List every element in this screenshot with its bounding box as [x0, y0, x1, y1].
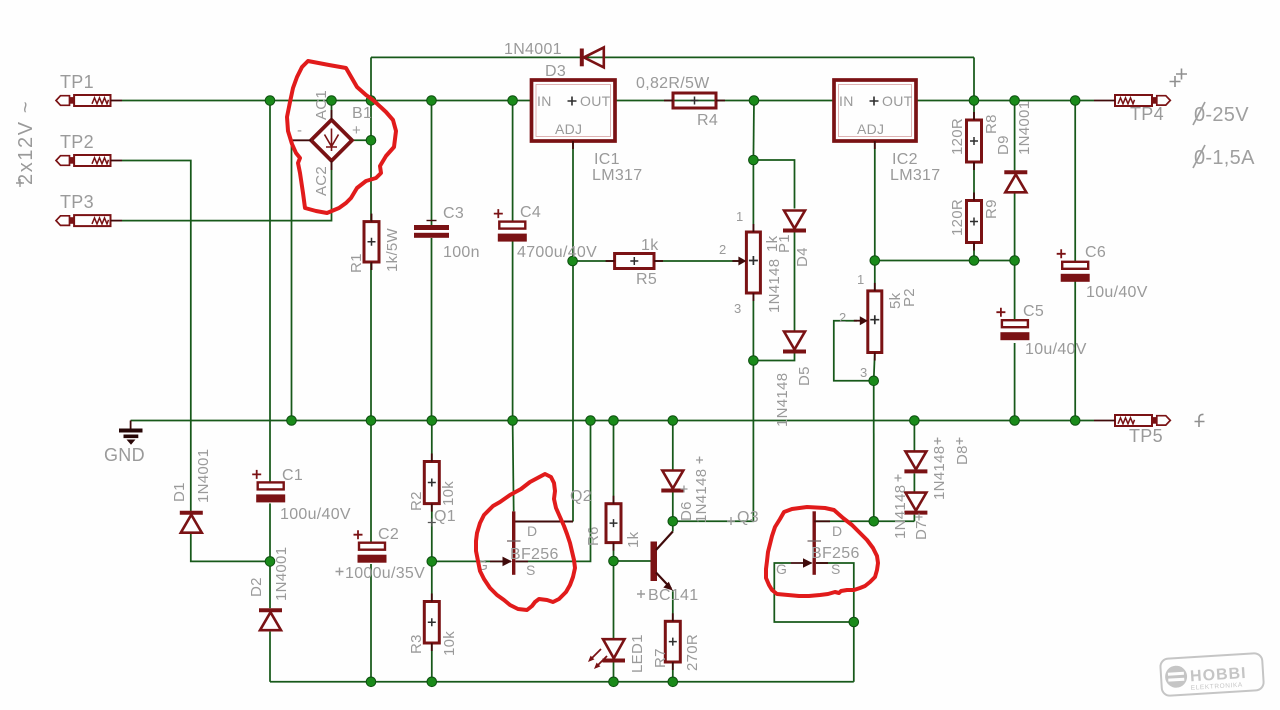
resistor R7 — [665, 613, 680, 670]
svg-text:1N4001: 1N4001 — [504, 41, 562, 58]
svg-text:BF256: BF256 — [811, 545, 860, 562]
junction dots on bottom rail — [366, 677, 677, 687]
svg-text:10u/40V: 10u/40V — [1025, 341, 1087, 358]
wire: R3 to bottom rail — [431, 643, 433, 682]
wire: Q1 drain stub — [514, 521, 573, 523]
junction: collector node — [668, 517, 678, 527]
svg-text:TP3: TP3 — [60, 192, 94, 212]
origin cross Q1 on lead — [428, 519, 436, 527]
annotation red circle around bridge B1 — [287, 61, 396, 213]
diode D5 (1N4148) — [783, 332, 806, 352]
svg-text:TP2: TP2 — [60, 132, 94, 152]
connector TP3 symbol — [56, 215, 122, 226]
wire: D6 to collector node — [672, 493, 674, 522]
resistor R8 — [967, 112, 982, 170]
connector TP5 symbol — [1094, 415, 1170, 426]
origin cross above 1N4148 D7 — [895, 475, 902, 482]
wire: D1 bottom to D2 junction — [191, 533, 270, 561]
diode D8 (1N4148) — [904, 451, 927, 471]
svg-text:Q3: Q3 — [737, 509, 759, 526]
svg-text:ADJ: ADJ — [857, 121, 884, 137]
svg-text:1N4148: 1N4148 — [774, 373, 791, 427]
origin cross above 1N4148 D6 — [696, 457, 703, 464]
wire: Q3 drain wire — [814, 520, 914, 522]
annotation f mark near TP5 — [1195, 414, 1205, 427]
svg-text:R7: R7 — [652, 648, 669, 668]
origin cross before 1000u/35V — [336, 568, 344, 576]
wire: ADJ node down to Q1 — [572, 261, 574, 522]
capacitor C1 — [252, 470, 285, 503]
svg-text:D5: D5 — [796, 366, 813, 386]
svg-text:C6: C6 — [1085, 244, 1106, 261]
svg-text:1N4148: 1N4148 — [931, 446, 948, 500]
wire: D9 bottom to node — [1014, 191, 1016, 260]
origin cross above D7 label — [916, 514, 923, 521]
svg-text:4700u/40V: 4700u/40V — [517, 244, 597, 261]
voltage regulator IC1 LM317 box — [532, 80, 616, 149]
wire: R8 top — [973, 101, 975, 121]
wire: Q1 gate wire — [432, 560, 511, 562]
wire: node to P1 pin1 — [752, 160, 754, 232]
svg-text:D: D — [527, 523, 537, 539]
svg-text:C5: C5 — [1023, 303, 1044, 320]
wire: D7 bottom — [913, 515, 915, 522]
junction: P2 pin3 node — [869, 376, 879, 386]
diode D7 (1N4148) — [904, 493, 927, 513]
svg-text:1N4148: 1N4148 — [766, 259, 783, 313]
wire: P2 pin3 to node — [874, 353, 875, 381]
annotation slash through 0 (1,5A) — [1193, 145, 1205, 168]
diode D9 (1N4001, cathode up) — [1004, 172, 1027, 192]
svg-text:D: D — [832, 523, 842, 539]
svg-text:R9: R9 — [983, 199, 1000, 219]
transistor Q1/Q2 JFET BF256 (left) — [490, 511, 528, 574]
wire: R2 column — [431, 421, 433, 462]
wire: D4 to D5 — [794, 233, 796, 331]
resistor R9 — [967, 193, 982, 251]
svg-text:D1: D1 — [171, 482, 188, 502]
wire: R8 to R9 — [973, 162, 975, 201]
wire: Q3 source loop — [816, 563, 854, 622]
svg-text:1N4148: 1N4148 — [892, 485, 909, 539]
resistor R4 — [664, 93, 725, 108]
wire: node to C5 — [1014, 261, 1016, 321]
wire: Q1 source loop — [516, 421, 591, 562]
IC2 origin cross — [870, 97, 879, 106]
svg-text:LED1: LED1 — [629, 634, 646, 673]
svg-text:1: 1 — [736, 209, 744, 224]
svg-text:R6: R6 — [585, 526, 602, 546]
diode D6 (1N4148) — [661, 471, 684, 491]
svg-text:2x12V ~: 2x12V ~ — [15, 100, 37, 185]
watermark HOBBI ELEKTRONIKA logo — [1160, 653, 1264, 696]
svg-text:10k: 10k — [440, 481, 457, 506]
wire: C3 column above — [431, 101, 433, 226]
svg-text:1k: 1k — [625, 531, 642, 548]
svg-text:D9: D9 — [995, 135, 1012, 155]
wire: D2 bottom to bottom rail corner — [269, 632, 271, 682]
wire: collector node to BC141 — [672, 521, 674, 531]
wire: bypass left drop to rail — [370, 57, 372, 100]
wire: C1 bottom to D2 node — [269, 503, 271, 561]
svg-text:1000u/35V: 1000u/35V — [345, 565, 425, 582]
wire: C4 column below — [512, 241, 514, 420]
svg-text:Q2: Q2 — [570, 488, 592, 505]
svg-text:OUT: OUT — [580, 93, 611, 109]
svg-text:-: - — [297, 122, 302, 139]
wire: IC1 ADJ down — [572, 141, 574, 261]
annotation slash through 0 (25V) — [1193, 102, 1205, 125]
svg-text:3: 3 — [734, 301, 742, 316]
svg-text:IC1: IC1 — [594, 151, 620, 168]
svg-text:10k: 10k — [441, 631, 458, 656]
P1 wiper arrow — [732, 257, 746, 266]
wire: P2 node down to Q3 drain — [873, 381, 875, 522]
wire: R1 bottom to mid rail — [370, 262, 372, 421]
junction: Q3 drain node — [869, 517, 879, 527]
annotation red circle around Q3 — [766, 507, 878, 596]
connector TP1 symbol — [56, 95, 122, 106]
transistor BC141 NPN — [651, 532, 673, 591]
wire: mid rail (GND rail, y=420.5) — [131, 420, 1094, 422]
junction: D5/P1 pin3 node — [749, 356, 759, 366]
resistor R3 — [424, 594, 439, 652]
wire: D2 node to D2 — [269, 561, 271, 608]
svg-text:C1: C1 — [282, 467, 303, 484]
wire: Q3 source node to bottom rail — [853, 622, 855, 682]
wire: main positive rail (top, y=100.5) — [122, 100, 532, 102]
wire: base wire — [614, 560, 651, 562]
wire: top bypass line with D3 — [371, 56, 974, 58]
diode D3 (horizontal, cathode left) — [582, 47, 604, 67]
svg-text:100n: 100n — [443, 244, 480, 261]
ground GND symbol — [119, 421, 143, 445]
wire: R7 to bottom rail — [672, 662, 674, 682]
wire: D6 column — [672, 421, 674, 471]
svg-text:D7: D7 — [913, 520, 930, 540]
svg-text:R8: R8 — [983, 114, 1000, 134]
svg-text:D3: D3 — [545, 63, 566, 80]
diode D4 (1N4148) — [783, 211, 806, 231]
wire: base node to LED1 — [613, 561, 615, 638]
svg-text:1k: 1k — [641, 237, 659, 254]
transistor Q3 JFET BF256 (right) — [791, 511, 830, 575]
wire: LED1 to bottom rail — [613, 663, 615, 682]
junction: bridge plus node — [366, 136, 376, 146]
svg-text:R3: R3 — [408, 634, 425, 654]
svg-text:120R: 120R — [949, 199, 966, 236]
svg-text:TP5: TP5 — [1129, 426, 1163, 446]
svg-text:1: 1 — [857, 272, 865, 287]
svg-text:+: + — [352, 122, 361, 139]
LED LED1 — [588, 639, 625, 669]
wire: R5 to P1 wiper — [654, 260, 742, 262]
wire: D8 to D7 — [913, 473, 915, 491]
svg-text:R4: R4 — [697, 112, 718, 129]
svg-text:BF256: BF256 — [510, 546, 559, 563]
connector TP2 symbol — [56, 155, 122, 166]
resistor R1 — [364, 214, 379, 270]
potentiometer P1 — [746, 224, 760, 301]
wire: rail IC2 OUT to TP4 — [916, 100, 1094, 102]
wire: mid rail to C2 — [370, 421, 372, 543]
potentiometer P2 — [868, 283, 882, 361]
origin cross above D8 label — [956, 438, 963, 445]
svg-text:1N4001: 1N4001 — [273, 547, 290, 601]
svg-text:1N4001: 1N4001 — [195, 449, 212, 503]
wire: R9 bottom — [973, 243, 975, 261]
wire: bridge minus down to mid rail — [291, 140, 293, 420]
wire: IC2 ADJ down — [874, 141, 876, 261]
wire: R6 to base node — [613, 543, 615, 561]
capacitor C6 — [1057, 249, 1090, 281]
svg-text:1N4148: 1N4148 — [693, 469, 710, 523]
wire: P1 pin3 to node — [752, 293, 754, 361]
diode D2 (1N4001) — [259, 610, 282, 630]
svg-text:3: 3 — [860, 365, 868, 380]
wire: bridge AC1 to rail — [331, 101, 333, 120]
svg-text:D4: D4 — [794, 247, 811, 267]
wire: bottom rail — [270, 681, 854, 683]
svg-text:TP4: TP4 — [1130, 104, 1164, 124]
svg-text:1N4001: 1N4001 — [1016, 101, 1033, 155]
wire: bridge plus to junction — [352, 139, 371, 141]
origin cross above D6 label — [681, 486, 688, 493]
wire: bypass right drop to rail — [973, 57, 975, 100]
wire: rail to Q1 drain bar — [513, 421, 514, 512]
svg-text:G: G — [776, 561, 787, 577]
wire: D8 top — [913, 421, 915, 452]
junction: ADJ1/R5 node — [568, 256, 578, 266]
origin cross before Q3 — [727, 517, 735, 525]
origin cross below 2x12V — [16, 179, 24, 187]
svg-text:R2: R2 — [408, 491, 425, 511]
svg-text:ADJ: ADJ — [555, 121, 582, 137]
capacitor C3 — [414, 221, 449, 238]
wire: R6 column top — [613, 421, 615, 504]
origin cross before BC141 — [637, 590, 645, 598]
svg-text:D8: D8 — [954, 445, 971, 465]
capacitor C5 — [996, 308, 1029, 341]
svg-text:R5: R5 — [636, 271, 657, 288]
wire: Q3 gate loop — [774, 563, 854, 622]
svg-text:1k/5W: 1k/5W — [384, 227, 401, 272]
diode D1 (1N4001) — [180, 513, 203, 533]
svg-text:IN: IN — [839, 93, 854, 109]
svg-text:P1: P1 — [776, 234, 793, 253]
resistor R6 — [606, 496, 621, 551]
wire: node to D4 — [753, 160, 794, 209]
wire: TP3 to bridge AC2 — [122, 161, 332, 221]
svg-text:2: 2 — [719, 242, 727, 257]
voltage regulator IC2 LM317 box — [834, 80, 916, 149]
wire: C3 column below — [431, 238, 433, 421]
junction dots on positive rail — [265, 96, 1080, 106]
resistor R5 — [606, 254, 663, 269]
junction dots on mid rail — [287, 416, 1080, 426]
wire: C4 column above — [512, 101, 514, 222]
wire: TP2 to D1 column — [122, 161, 191, 512]
IC1 origin cross — [568, 97, 577, 106]
wire: gate node to R3 — [431, 561, 433, 601]
wire: D5 to P1 pin3 node — [753, 354, 794, 361]
svg-text:LM317: LM317 — [890, 167, 940, 184]
wire: C6 column — [1074, 101, 1076, 262]
svg-text:100u/40V: 100u/40V — [280, 506, 351, 523]
wire: C5 to mid rail — [1014, 343, 1016, 421]
annotation red circle around Q1 — [476, 474, 575, 610]
wire: rail IC1 OUT to IC2 IN — [615, 100, 834, 102]
junction: Q3 gate-source tie — [849, 617, 859, 627]
svg-text:C4: C4 — [520, 204, 541, 221]
wire: BC141 emitter down to R7 — [672, 590, 674, 621]
wire: R2 to gate node — [431, 504, 433, 562]
svg-text:10u/40V: 10u/40V — [1086, 284, 1148, 301]
wire: P2 wiper loop — [834, 321, 874, 381]
svg-text:IC2: IC2 — [892, 151, 918, 168]
wire: node down to BC141 collector — [673, 361, 754, 522]
wire: ADJ2 node right — [875, 260, 1015, 262]
svg-text:R1: R1 — [348, 253, 365, 273]
svg-text:Q1: Q1 — [434, 508, 456, 525]
wire: column x=270 rail to C1 — [269, 101, 271, 483]
svg-text:LM317: LM317 — [592, 167, 642, 184]
connector TP4 symbol — [1094, 95, 1170, 106]
capacitor C4 — [494, 209, 527, 242]
bridge rectifier B1 — [292, 110, 353, 170]
wire: P2 pin1 — [874, 261, 876, 291]
svg-text:0,82R/5W: 0,82R/5W — [636, 75, 710, 92]
junction dots on gate row — [265, 556, 618, 566]
svg-text:AC1: AC1 — [313, 90, 330, 120]
svg-text:C2: C2 — [378, 526, 399, 543]
wire: C2 bottom to bottom rail — [370, 564, 372, 682]
annotation plus marks near TP4 — [1170, 69, 1188, 88]
wire: column x=371 rail to R1 — [370, 101, 372, 222]
wire: D9 top — [1014, 101, 1016, 171]
junction: R4/P1/D4 node — [749, 155, 759, 165]
svg-text:OUT: OUT — [882, 93, 913, 109]
svg-text:D2: D2 — [248, 577, 265, 597]
svg-text:IN: IN — [537, 93, 552, 109]
svg-text:TP1: TP1 — [60, 72, 94, 92]
svg-text:2: 2 — [839, 310, 847, 325]
junction: ADJ2 node and R9/D9 nodes — [870, 256, 1019, 266]
P2 wiper arrow — [854, 316, 868, 325]
svg-text:GND: GND — [104, 445, 145, 465]
svg-text:P2: P2 — [901, 288, 918, 307]
resistor R2 — [424, 454, 439, 512]
svg-text:270R: 270R — [684, 634, 701, 671]
origin cross above 1N4148 D8 — [934, 438, 941, 445]
wire: R5 left lead — [573, 260, 615, 262]
svg-text:BC141: BC141 — [648, 587, 698, 604]
svg-text:120R: 120R — [949, 118, 966, 155]
svg-text:S: S — [831, 561, 841, 577]
svg-text:S: S — [526, 562, 536, 578]
svg-text:C3: C3 — [443, 205, 464, 222]
svg-text:B1: B1 — [352, 105, 372, 122]
capacitor C2 — [354, 530, 387, 563]
wire: R4 node down — [752, 101, 755, 161]
wire: C6 to mid rail — [1074, 282, 1076, 421]
svg-text:AC2: AC2 — [313, 166, 330, 196]
